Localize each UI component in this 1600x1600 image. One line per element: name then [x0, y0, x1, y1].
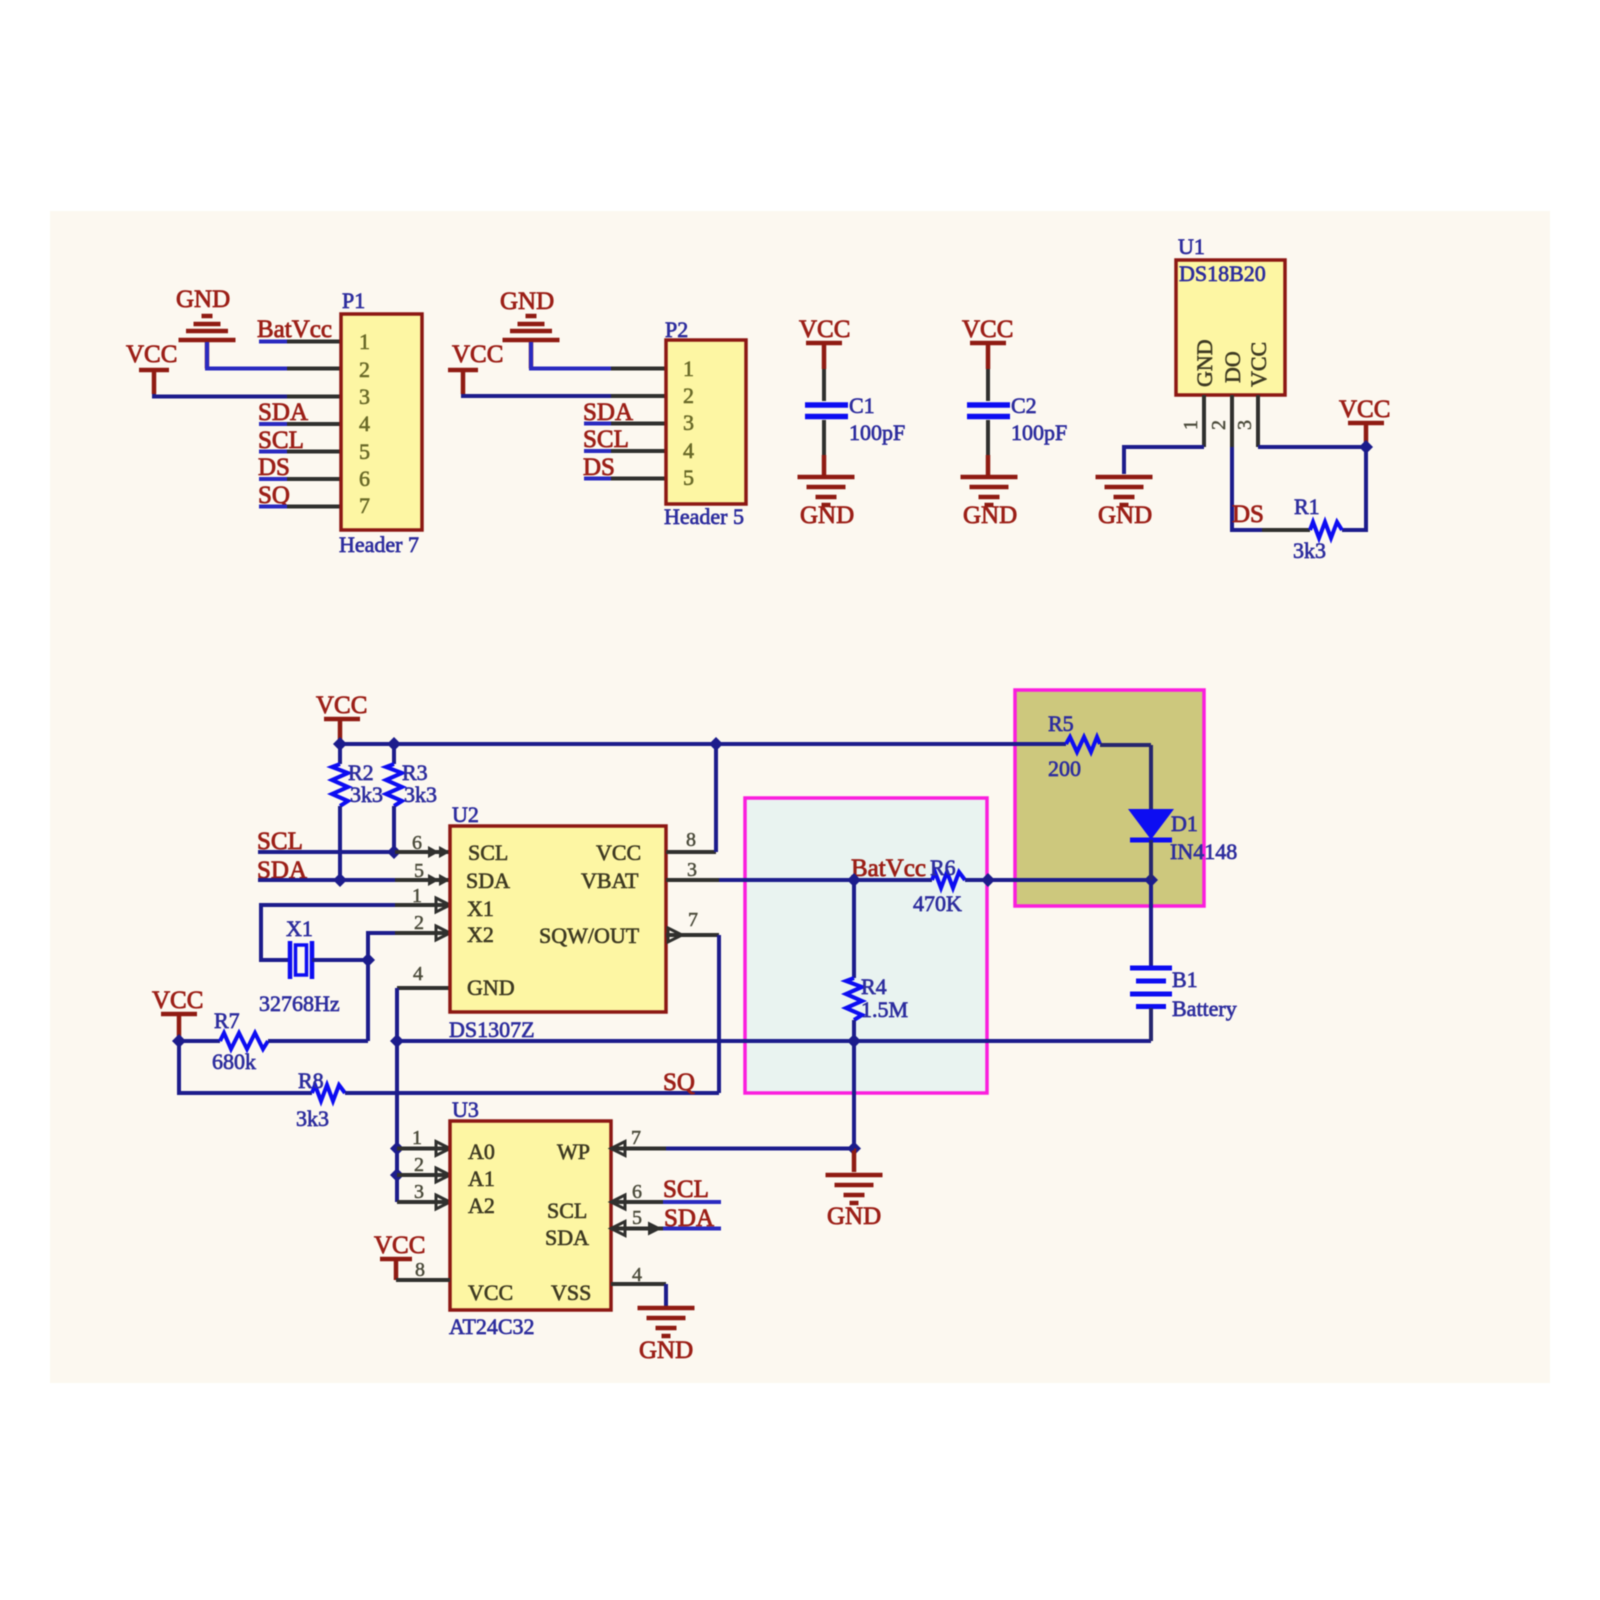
wire R5 to D1 [1149, 745, 1153, 812]
svg-text:4: 4 [683, 438, 694, 463]
wire C2 bottom [986, 420, 990, 455]
svg-text:2: 2 [1208, 420, 1230, 430]
svg-text:IN4148: IN4148 [1170, 839, 1237, 864]
junction VCC/R7/R8 [172, 1034, 186, 1048]
svg-text:SQW/OUT: SQW/OUT [539, 923, 640, 948]
junction SCL/R3 [387, 845, 401, 859]
wire VCC rail [340, 742, 1066, 746]
pin U1.3 VCC [1256, 395, 1260, 447]
pin P1.2 [287, 367, 341, 371]
svg-text:2: 2 [683, 383, 694, 408]
wire P2 pin5 [584, 477, 611, 481]
svg-text:1: 1 [412, 1127, 422, 1149]
svg-text:7: 7 [359, 493, 370, 518]
resistor R1 3k3 [1262, 494, 1342, 563]
svg-text:GND: GND [500, 288, 554, 315]
wire P2 pin1 (GND) [531, 342, 611, 369]
wire P2 pin2 (VCC) [463, 394, 611, 396]
pin P1.6 [287, 477, 341, 481]
power symbol VCC (C1) [799, 316, 850, 369]
wire P1 pin4 [259, 422, 287, 426]
power symbol VCC (main) [316, 692, 367, 744]
svg-text:DS: DS [1232, 501, 1264, 528]
ground GND (center) [826, 1149, 883, 1231]
wire WP to GND stem [666, 1147, 854, 1151]
resistor R4 1.5M [846, 880, 908, 1041]
svg-text:B1: B1 [1172, 967, 1198, 992]
wire SQ net vertical [717, 935, 721, 1093]
pin U2.4 GND [397, 963, 450, 988]
connector P2 Header 5 [664, 317, 746, 529]
IC U1 DS18B20 [1176, 234, 1285, 395]
resistor R3 3k3 [386, 744, 437, 852]
svg-text:100pF: 100pF [1011, 420, 1067, 445]
pin P1.7 [287, 505, 341, 509]
pin P2.4 [611, 449, 666, 453]
pin P2.2 [611, 394, 666, 398]
svg-text:VCC: VCC [1339, 396, 1390, 423]
svg-text:VCC: VCC [374, 1232, 425, 1259]
junction A1 [390, 1168, 404, 1182]
ground GND (U3) [638, 1308, 695, 1364]
diode D1 IN4148 [1130, 810, 1237, 864]
svg-text:P1: P1 [342, 288, 365, 313]
svg-text:3: 3 [687, 859, 697, 881]
svg-text:SCL: SCL [663, 1176, 709, 1203]
svg-text:DO: DO [1220, 351, 1245, 383]
wire U1 VCC net [1258, 447, 1366, 530]
pin P2.5 [611, 477, 666, 481]
svg-text:R4: R4 [861, 974, 887, 999]
wire battery to GND rail [1149, 1008, 1153, 1041]
svg-text:VSS: VSS [551, 1280, 591, 1305]
svg-text:Battery: Battery [1172, 996, 1237, 1021]
svg-text:C1: C1 [849, 393, 875, 418]
wire U2 VCC to rail [714, 744, 718, 852]
wire DS net (U1 DO) [1232, 447, 1262, 530]
wire P1 pin2 (GND) [207, 342, 287, 369]
wire VBAT net [719, 878, 932, 882]
svg-text:VCC: VCC [452, 341, 503, 368]
svg-text:5: 5 [359, 439, 370, 464]
svg-text:GND: GND [1192, 339, 1217, 387]
wire P1 pin5 [259, 450, 287, 454]
svg-text:4: 4 [359, 411, 370, 436]
junction VCC/U2pin8 [709, 737, 723, 751]
power symbol VCC (C2) [962, 316, 1013, 369]
pin U3.3 A2 [397, 1181, 450, 1209]
pin U2.2 X2 [395, 912, 450, 940]
svg-text:VCC: VCC [1246, 342, 1271, 387]
svg-text:3k3: 3k3 [296, 1106, 329, 1131]
wire P1 pin3 (VCC) [154, 394, 287, 397]
IC U2 DS1307Z [449, 802, 666, 1042]
junction BatVcc/R4 [847, 873, 861, 887]
svg-text:R5: R5 [1048, 711, 1074, 736]
crystal X1 32768Hz [259, 916, 340, 1016]
svg-text:X1: X1 [467, 896, 494, 921]
svg-text:7: 7 [631, 1127, 641, 1149]
svg-text:VCC: VCC [126, 341, 177, 368]
svg-text:1: 1 [412, 885, 422, 907]
power symbol VCC (R7) [152, 987, 203, 1041]
capacitor C2 [967, 393, 1067, 445]
svg-text:5: 5 [683, 465, 694, 490]
ground symbol GND (P1) [176, 286, 236, 369]
wire SDA [258, 878, 395, 882]
svg-text:1: 1 [1180, 420, 1202, 430]
junction VCC/R2 [333, 737, 347, 751]
ground GND (C2) [961, 477, 1018, 529]
svg-text:AT24C32: AT24C32 [449, 1314, 535, 1339]
resistor R7 680k [179, 1008, 368, 1074]
svg-text:200: 200 [1048, 756, 1081, 781]
wire GND stem (R4/WP) [852, 1041, 856, 1149]
pin U1.2 DO [1230, 395, 1234, 447]
IC U3 AT24C32 [449, 1097, 611, 1339]
pin U2.1 X1 [395, 885, 450, 912]
wire P1 pin7 [259, 505, 287, 509]
wire P2 pin4 [584, 449, 611, 453]
svg-text:2: 2 [359, 357, 370, 382]
svg-text:VCC: VCC [468, 1280, 513, 1305]
wire SCL (U3) [663, 1200, 721, 1204]
svg-text:7: 7 [688, 909, 698, 931]
svg-text:2: 2 [414, 912, 424, 934]
svg-text:Header 5: Header 5 [664, 504, 744, 529]
connector P1 Header 7 [339, 288, 422, 557]
wire X1 net [261, 905, 395, 960]
junction GND/U2pin4 [390, 1034, 404, 1048]
svg-text:4: 4 [413, 963, 423, 985]
pin U2.5 SDA [395, 860, 450, 886]
svg-text:SCL: SCL [583, 426, 629, 453]
wire U1 GND to ground [1124, 447, 1204, 474]
power symbol VCC (U3) [374, 1232, 425, 1280]
svg-text:WP: WP [557, 1139, 590, 1164]
resistor R5 200 [1048, 711, 1151, 781]
resistor R6 470K [913, 855, 988, 916]
svg-text:4: 4 [632, 1264, 642, 1286]
junction WP/GND [847, 1142, 861, 1156]
svg-text:1: 1 [683, 356, 694, 381]
wire P1 pin1 [259, 340, 287, 344]
resistor R2 3k3 [332, 744, 383, 880]
svg-text:1: 1 [359, 329, 370, 354]
wire D1 to BatVcc junction [1149, 840, 1153, 880]
wire BatVcc to diode [988, 878, 1151, 882]
pin U2.7 SQW/OUT [666, 909, 719, 942]
wire GND rail [397, 1039, 1151, 1043]
wire VSS to ground [664, 1284, 668, 1306]
svg-text:DS1307Z: DS1307Z [449, 1017, 535, 1042]
pin U3.2 A1 [397, 1154, 450, 1182]
svg-text:X1: X1 [286, 916, 313, 941]
svg-text:3: 3 [359, 384, 370, 409]
svg-text:X2: X2 [467, 922, 494, 947]
svg-text:R8: R8 [298, 1068, 324, 1093]
svg-text:3k3: 3k3 [404, 782, 437, 807]
junction R6 right [981, 873, 995, 887]
svg-text:C2: C2 [1011, 393, 1037, 418]
svg-text:32768Hz: 32768Hz [259, 991, 340, 1016]
svg-text:VCC: VCC [152, 987, 203, 1014]
svg-text:A1: A1 [468, 1166, 495, 1191]
ground GND (U1) [1096, 477, 1153, 529]
junction A0 [390, 1142, 404, 1156]
svg-text:U1: U1 [1178, 234, 1205, 259]
svg-text:3k3: 3k3 [350, 782, 383, 807]
svg-text:SDA: SDA [466, 868, 510, 893]
svg-text:BatVcc: BatVcc [257, 316, 332, 343]
svg-text:5: 5 [632, 1207, 642, 1229]
wire C2 top [986, 369, 990, 401]
pin P2.1 [611, 367, 666, 371]
svg-text:SDA: SDA [545, 1225, 589, 1250]
ground symbol GND (P2) [500, 288, 560, 369]
wire P1 pin6 [259, 477, 287, 481]
svg-text:SQ: SQ [663, 1069, 695, 1096]
svg-text:DS18B20: DS18B20 [1179, 261, 1266, 286]
highlight box (olive, R5/D1) [1015, 690, 1204, 906]
svg-text:BatVcc: BatVcc [851, 855, 926, 882]
pin P1.4 [287, 422, 341, 426]
wire BatVcc to battery [1149, 880, 1153, 966]
svg-text:GND: GND [963, 502, 1017, 529]
svg-text:680k: 680k [212, 1049, 256, 1074]
svg-text:5: 5 [414, 860, 424, 882]
junction BatVcc/D1 [1144, 873, 1158, 887]
svg-text:U2: U2 [452, 802, 479, 827]
pin U3.1 A0 [397, 1127, 450, 1156]
svg-text:R1: R1 [1294, 494, 1320, 519]
wire R7 right vertical [366, 960, 370, 1041]
pin U3.6 SCL [611, 1181, 666, 1209]
svg-text:A2: A2 [468, 1193, 495, 1218]
svg-text:A0: A0 [468, 1139, 495, 1164]
junction SDA/R2 [333, 873, 347, 887]
pin U3.7 WP [611, 1127, 666, 1156]
svg-text:R7: R7 [214, 1008, 240, 1033]
svg-text:470K: 470K [913, 891, 962, 916]
svg-text:GND: GND [1098, 502, 1152, 529]
pin U2.6 SCL [395, 832, 450, 858]
battery B1 [1130, 967, 1237, 1021]
svg-text:3: 3 [1234, 420, 1256, 430]
pin U2.3 VBAT [666, 859, 719, 881]
highlight box (light blue, R4/R6) [745, 798, 987, 1093]
svg-text:VCC: VCC [596, 840, 641, 865]
svg-text:R6: R6 [930, 855, 956, 880]
svg-text:6: 6 [412, 832, 422, 854]
svg-text:VCC: VCC [962, 316, 1013, 343]
ground GND (C1) [798, 477, 855, 529]
svg-text:GND: GND [176, 286, 230, 313]
pin U1.1 GND [1202, 395, 1206, 447]
svg-text:DS: DS [258, 454, 290, 481]
svg-text:100pF: 100pF [849, 420, 905, 445]
wire SCL [258, 850, 395, 854]
svg-text:VBAT: VBAT [581, 868, 639, 893]
pin U3.8 VCC [396, 1259, 450, 1281]
wire X2 net [368, 933, 395, 960]
svg-text:8: 8 [415, 1259, 425, 1281]
pin P2.3 [611, 422, 666, 426]
pin U3.4 VSS [611, 1264, 666, 1286]
junction GND/R4 [847, 1034, 861, 1048]
svg-text:SCL: SCL [468, 840, 508, 865]
wire SDA (U3) [663, 1227, 721, 1231]
svg-text:3: 3 [414, 1181, 424, 1203]
resistor R8 3k3 (SQ pullup) [179, 1041, 719, 1131]
svg-text:Header 7: Header 7 [339, 532, 419, 557]
power symbol VCC (P1) [126, 341, 177, 394]
pin P1.3 [287, 395, 341, 399]
svg-text:8: 8 [686, 829, 696, 851]
svg-text:VCC: VCC [316, 692, 367, 719]
power symbol VCC (P2) [448, 341, 503, 394]
svg-text:2: 2 [414, 1154, 424, 1176]
svg-text:GND: GND [800, 502, 854, 529]
svg-text:D1: D1 [1171, 811, 1198, 836]
wire crystal right to X2 junction [312, 958, 368, 962]
svg-text:SDA: SDA [258, 399, 308, 426]
junction U1-VCC [1359, 440, 1373, 454]
pin U2.8 VCC [666, 829, 716, 852]
wire C1 top [822, 369, 826, 401]
svg-text:GND: GND [827, 1203, 881, 1230]
svg-text:SCL: SCL [547, 1198, 587, 1223]
svg-text:U3: U3 [452, 1097, 479, 1122]
svg-text:GND: GND [467, 975, 515, 1000]
power symbol VCC (U1) [1339, 396, 1390, 447]
pin P1.1 [287, 340, 341, 344]
svg-text:1.5M: 1.5M [861, 997, 908, 1022]
wire C1 bottom [822, 420, 826, 455]
svg-text:3: 3 [683, 410, 694, 435]
wire P2 pin3 [584, 422, 611, 426]
capacitor C1 [805, 393, 905, 445]
svg-text:GND: GND [639, 1337, 693, 1364]
svg-text:P2: P2 [665, 317, 688, 342]
pin P1.5 [287, 450, 341, 454]
junction X2/crystal/R7 [361, 953, 375, 967]
svg-text:6: 6 [632, 1181, 642, 1203]
pin U3.5 SDA [611, 1207, 666, 1236]
svg-text:3k3: 3k3 [1293, 538, 1326, 563]
wire U2 GND down [395, 988, 399, 1202]
svg-text:6: 6 [359, 466, 370, 491]
svg-text:VCC: VCC [799, 316, 850, 343]
junction VCC/R3 [387, 737, 401, 751]
